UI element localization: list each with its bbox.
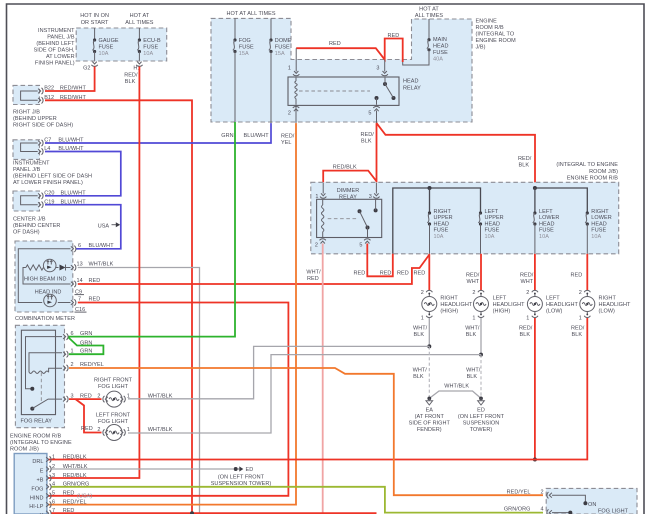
svg-text:HIGH BEAM IND: HIGH BEAM IND [24, 277, 67, 283]
svg-text:RIGHT: RIGHT [591, 209, 609, 215]
svg-text:RED: RED [354, 270, 366, 276]
svg-text:(ON LEFT FRONT: (ON LEFT FRONT [458, 414, 505, 420]
svg-text:ON: ON [588, 502, 596, 508]
right J/B connector B12 [42, 97, 44, 103]
wire RED/YEL head relay pin 2 down to HI-LP row [295, 105, 297, 123]
dimmer relay box [317, 199, 382, 237]
head relay pin 2 [293, 106, 299, 108]
svg-text:GRN: GRN [80, 349, 92, 355]
wire RED: main head fuse to head relay pins 1 and 3 [296, 39, 403, 63]
svg-text:(INTEGRAL TO ENGINE: (INTEGRAL TO ENGINE [556, 162, 618, 168]
svg-text:6: 6 [52, 499, 55, 505]
dimmer relay pin 1 [320, 197, 326, 199]
resistor (high beam ind) [26, 265, 44, 270]
wire RED pin7 to DRL module HIND row [48, 303, 288, 496]
svg-text:FOG RELAY: FOG RELAY [21, 419, 53, 425]
dimmer relay pin 2 [320, 239, 326, 241]
svg-text:CENTER J/B: CENTER J/B [13, 217, 46, 223]
svg-text:RED/YEL: RED/YEL [63, 499, 87, 505]
svg-text:(BEHIND LEFT: (BEHIND LEFT [36, 41, 75, 47]
dimmer relay switch [358, 209, 362, 213]
ground ED (left front suspension tower) [479, 397, 483, 401]
wire RED dimmer pin 5 loop up to high fuse bus [367, 244, 393, 277]
wire RED row 7 to head relay pin 5 column [52, 512, 377, 514]
svg-text:ENGINE: ENGINE [476, 19, 498, 25]
combination meter pin 13 [74, 264, 76, 270]
dimmer relay coil [322, 200, 324, 238]
svg-text:ALL TIMES: ALL TIMES [125, 20, 154, 26]
fog relay switch [30, 407, 34, 411]
svg-text:ROOM J/B): ROOM J/B) [10, 447, 39, 453]
svg-text:FUSE: FUSE [433, 50, 448, 56]
svg-text:HI-LP: HI-LP [29, 504, 44, 510]
svg-text:WHT/: WHT/ [466, 368, 481, 374]
svg-text:OR START: OR START [81, 20, 109, 26]
svg-text:2: 2 [472, 290, 475, 296]
head relay pin 3 [382, 74, 388, 76]
svg-text:RED/: RED/ [124, 73, 138, 79]
instrument panel J/B dashed box (C7/L4) [13, 140, 40, 160]
fog relay pin6-pin1 link GRN [69, 338, 104, 355]
head relay pin 5 [373, 106, 379, 108]
wire RED/BLK right low return to DRL row [48, 318, 587, 460]
svg-text:3: 3 [52, 473, 55, 479]
head relay box [288, 77, 399, 105]
combination meter pin 14 [74, 281, 76, 287]
svg-text:2: 2 [315, 243, 318, 249]
svg-text:(BEHIND CENTER: (BEHIND CENTER [13, 223, 60, 229]
svg-text:HEADLIGHT: HEADLIGHT [546, 302, 579, 308]
svg-text:UPPER: UPPER [485, 215, 504, 221]
fuse MAIN HEAD 40A [428, 19, 430, 40]
svg-text:MAIN: MAIN [433, 37, 447, 43]
svg-text:RED: RED [63, 491, 75, 497]
svg-text:(HIGH): (HIGH) [493, 309, 511, 315]
svg-text:PANEL J/B: PANEL J/B [13, 167, 41, 173]
svg-text:BLK: BLK [519, 163, 530, 169]
svg-text:RED/: RED/ [281, 133, 295, 139]
wire RED/BLK head relay pin 5 branches [376, 111, 378, 124]
junction B12 wire to row 7 [190, 511, 194, 514]
svg-text:10A: 10A [99, 51, 109, 57]
svg-text:1: 1 [579, 316, 582, 322]
svg-text:(INTEGRAL TO: (INTEGRAL TO [476, 32, 515, 38]
svg-text:UPPER: UPPER [434, 215, 453, 221]
svg-text:LEFT: LEFT [493, 296, 507, 302]
junction: right upper fuse tap [428, 186, 432, 190]
right J/B dashed box [13, 85, 40, 104]
right J/B connector B22 [42, 88, 44, 94]
svg-text:HEADLIGHT: HEADLIGHT [440, 302, 473, 308]
fog relay internal: pin6 to contact [26, 337, 63, 389]
svg-text:HEAD: HEAD [434, 221, 449, 227]
svg-text:BLK: BLK [572, 332, 583, 338]
svg-text:RED: RED [397, 270, 409, 276]
bulb LEFT HEADLIGHT (HIGH) [480, 254, 482, 290]
DRL module connector box [14, 454, 47, 514]
svg-text:2: 2 [421, 290, 424, 296]
svg-text:SUSPENSION: SUSPENSION [463, 421, 500, 427]
svg-text:ENGINE ROOM: ENGINE ROOM [476, 38, 517, 44]
svg-text:YEL: YEL [281, 140, 292, 146]
connector C7 [42, 140, 44, 146]
fog relay pin 3 [67, 396, 69, 402]
fog relay pin 2 [67, 365, 69, 371]
svg-text:HEADLIGHT: HEADLIGHT [599, 302, 632, 308]
svg-text:DRL: DRL [32, 459, 43, 465]
svg-text:RED/: RED/ [518, 156, 532, 162]
svg-text:RIGHT FRONT: RIGHT FRONT [94, 378, 133, 384]
svg-text:(ON LEFT FRONT: (ON LEFT FRONT [218, 475, 265, 481]
engine room R/B fog relay dashed enclosure [15, 325, 64, 427]
svg-text:1: 1 [127, 427, 130, 433]
svg-text:3: 3 [376, 65, 379, 71]
svg-text:INSTRUMENT: INSTRUMENT [38, 28, 75, 34]
svg-text:ENGINE ROOM R/B: ENGINE ROOM R/B [567, 176, 618, 182]
indicator lamp HEAD IND [44, 294, 57, 307]
svg-text:2: 2 [579, 290, 582, 296]
svg-text:ROOM R/B: ROOM R/B [476, 25, 504, 31]
svg-text:LEFT: LEFT [546, 296, 560, 302]
svg-text:FINISH PANEL): FINISH PANEL) [35, 60, 75, 66]
svg-text:WHT/BLK: WHT/BLK [444, 384, 469, 390]
svg-text:2: 2 [288, 111, 291, 117]
svg-text:WHT: WHT [467, 279, 480, 285]
head relay switch contacts [383, 82, 387, 86]
svg-text:HOT AT ALL TIMES: HOT AT ALL TIMES [226, 11, 275, 17]
instrument panel J/B (fuse box, top left) dashed enclosure [76, 28, 167, 61]
svg-text:FUSE: FUSE [99, 45, 114, 51]
fuse ECU-B 10A [138, 28, 140, 40]
wire GRN fog fuse to fog relay pin 6 [69, 122, 236, 337]
svg-text:FOG: FOG [31, 486, 43, 492]
svg-text:FOG LIGHT: FOG LIGHT [598, 509, 629, 514]
svg-text:RED: RED [81, 426, 93, 432]
wire RED/WHT B22 to gauge fuse G2 [45, 67, 95, 92]
connector C20 [42, 193, 44, 199]
dimmer relay pin 5 [364, 239, 370, 241]
fog relay pin 1 [67, 351, 69, 357]
svg-text:BLU/WHT: BLU/WHT [89, 243, 115, 249]
combination meter pin 6 [74, 246, 76, 252]
svg-text:RED: RED [307, 276, 319, 282]
indicator lamp HIGH BEAM IND [43, 259, 56, 272]
svg-text:1: 1 [421, 316, 424, 322]
fog relay box [21, 330, 55, 414]
bus: dimmer output to high beam fuses [393, 188, 481, 254]
svg-text:RED: RED [380, 270, 392, 276]
fuse GAUGE 10A [94, 28, 96, 40]
fuse LEFT LOWER HEAD 10A [533, 211, 536, 214]
svg-text:1: 1 [315, 194, 318, 200]
svg-text:HOT AT: HOT AT [419, 6, 439, 12]
fog switch pin 2 [547, 492, 549, 498]
wire WHT/BLK net to left fog light [128, 355, 481, 433]
svg-text:2: 2 [541, 490, 544, 496]
svg-text:BLK: BLK [466, 332, 477, 338]
svg-text:DOME: DOME [275, 38, 292, 44]
svg-text:2: 2 [97, 427, 100, 433]
svg-text:ENGINE ROOM R/B: ENGINE ROOM R/B [10, 434, 61, 440]
svg-text:RIGHT J/B: RIGHT J/B [13, 110, 40, 116]
svg-text:(USA): (USA) [77, 494, 92, 500]
dashed WHT/BLK to ground EA [428, 346, 430, 396]
svg-text:(AT FRONT: (AT FRONT [415, 414, 445, 420]
svg-text:(BEHIND UPPER: (BEHIND UPPER [13, 116, 57, 122]
svg-text:INSTRUMENT: INSTRUMENT [13, 161, 50, 167]
svg-text:WHT/BLK: WHT/BLK [148, 394, 173, 400]
bulb RIGHT HEADLIGHT (LOW) [586, 254, 588, 290]
svg-text:(HIGH): (HIGH) [440, 309, 458, 315]
svg-text:FENDER): FENDER) [417, 427, 442, 433]
svg-text:E: E [40, 469, 44, 475]
dimmer relay armature dashed link [328, 218, 357, 220]
svg-text:5: 5 [368, 111, 371, 117]
svg-text:1: 1 [52, 454, 55, 460]
svg-text:GRN/ORG: GRN/ORG [504, 506, 531, 512]
svg-text:RIGHT SIDE OF DASH): RIGHT SIDE OF DASH) [13, 123, 73, 129]
fuse FOG 15A [234, 18, 236, 40]
svg-text:ED: ED [246, 467, 254, 473]
svg-text:1: 1 [71, 349, 74, 355]
svg-text:PANEL J/B: PANEL J/B [47, 34, 75, 40]
svg-text:COMBINATION METER: COMBINATION METER [15, 316, 75, 322]
svg-text:6: 6 [78, 243, 81, 249]
bulb LEFT HEADLIGHT (LOW) [534, 254, 536, 290]
diode (high beam ind) [60, 265, 66, 271]
svg-text:1: 1 [127, 394, 130, 400]
connector H1 [136, 65, 142, 67]
svg-text:HEAD: HEAD [403, 79, 418, 85]
svg-text:BLK: BLK [467, 374, 478, 380]
junction: left lower fuse tap [533, 186, 537, 190]
svg-text:2: 2 [97, 394, 100, 400]
svg-text:FUSE: FUSE [143, 45, 158, 51]
svg-text:ED: ED [477, 408, 485, 414]
svg-text:(LOW): (LOW) [546, 309, 563, 315]
dashed WHT/BLK to ground ED [480, 355, 482, 397]
svg-text:HEAD: HEAD [485, 221, 500, 227]
svg-text:5: 5 [359, 243, 362, 249]
svg-text:10A: 10A [434, 234, 444, 240]
svg-text:LEFT: LEFT [539, 209, 553, 215]
svg-text:RED/: RED/ [520, 273, 534, 279]
svg-text:RED/: RED/ [466, 273, 480, 279]
svg-text:6: 6 [71, 331, 74, 337]
junction left high ground [479, 353, 483, 357]
svg-text:ECU-B: ECU-B [143, 38, 161, 44]
head relay coil [295, 81, 297, 99]
svg-text:FUSE: FUSE [485, 228, 500, 234]
wire BLU/WHT C7 to dome fuse [45, 123, 271, 143]
svg-text:DIMMER: DIMMER [337, 188, 360, 194]
svg-text:1: 1 [526, 316, 529, 322]
svg-text:WHT/: WHT/ [306, 270, 321, 276]
fog switch internal: pin2 to ON contact [552, 495, 585, 502]
wire WHT/BLK net to right fog light [128, 346, 429, 398]
svg-text:RED/: RED/ [361, 132, 375, 138]
svg-text:HIND: HIND [30, 495, 44, 501]
wire BLU/WHT L4 to C20 [45, 152, 121, 196]
svg-text:15A: 15A [275, 51, 285, 57]
junction right high ground [427, 344, 431, 348]
svg-text:TOWER): TOWER) [470, 427, 493, 433]
svg-text:HEADLIGHT: HEADLIGHT [493, 302, 526, 308]
svg-text:GRN: GRN [221, 133, 233, 139]
svg-text:BLK: BLK [125, 79, 136, 85]
svg-text:RED/BLK: RED/BLK [333, 165, 357, 171]
fuse DOME 15A [270, 18, 272, 40]
svg-text:13: 13 [77, 262, 83, 268]
svg-text:LEFT FRONT: LEFT FRONT [96, 413, 131, 419]
engine room R/B (lower) dashed enclosure [311, 182, 619, 254]
svg-text:10A: 10A [143, 51, 153, 57]
wire RED/YEL fog relay pin2 to fog light switch [69, 368, 543, 495]
svg-text:G2: G2 [83, 65, 90, 71]
combination meter pin 7 [74, 299, 76, 305]
combination meter dashed box [15, 241, 73, 312]
combination meter internal wiring [18, 249, 70, 303]
svg-text:HEAD: HEAD [591, 221, 606, 227]
svg-text:WHT/BLK: WHT/BLK [89, 262, 114, 268]
wire WHT/BLK pin13 down page [78, 268, 200, 514]
svg-text:BLK: BLK [413, 374, 424, 380]
svg-text:40A: 40A [433, 57, 443, 63]
fuse RIGHT LOWER HEAD 10A [586, 211, 589, 214]
svg-text:+B: +B [37, 478, 44, 484]
svg-text:WHT/: WHT/ [465, 326, 480, 332]
svg-text:RED: RED [571, 273, 583, 279]
svg-text:FUSE: FUSE [275, 45, 290, 51]
center J/B dashed box (C20/C19) [13, 191, 40, 211]
svg-text:BLU/WHT: BLU/WHT [244, 133, 270, 139]
svg-text:4: 4 [541, 506, 544, 512]
svg-text:WHT: WHT [521, 279, 534, 285]
svg-text:RED/: RED/ [571, 326, 585, 332]
svg-text:2: 2 [526, 290, 529, 296]
svg-text:RED/YEL: RED/YEL [507, 490, 531, 496]
svg-text:OF DASH): OF DASH) [13, 230, 40, 236]
head relay pin 1 [293, 74, 299, 76]
fog relay coil [29, 353, 62, 372]
svg-text:LOWER: LOWER [539, 215, 559, 221]
fog switch internal: pin4 contact [552, 512, 569, 514]
connector C19 [42, 202, 44, 208]
svg-text:WHT/BLK: WHT/BLK [148, 427, 173, 433]
svg-text:ALL TIMES: ALL TIMES [415, 13, 444, 19]
svg-text:5: 5 [52, 491, 55, 497]
svg-text:(LOW): (LOW) [599, 309, 616, 315]
svg-text:10A: 10A [591, 234, 601, 240]
svg-text:RED/: RED/ [519, 326, 533, 332]
fog relay armature dashed link [40, 373, 42, 402]
fuse RIGHT UPPER HEAD 10A [428, 211, 431, 214]
fog light switch dashed box [546, 488, 637, 514]
fog relay pin 6 [67, 333, 69, 339]
svg-text:15A: 15A [239, 51, 249, 57]
svg-text:FUSE: FUSE [591, 228, 606, 234]
svg-text:BLK: BLK [361, 139, 372, 145]
junction DRL row left low [533, 458, 537, 462]
svg-text:HOT AT: HOT AT [130, 13, 150, 19]
svg-text:AT LOWER: AT LOWER [46, 54, 75, 60]
svg-text:ROOM J/B): ROOM J/B) [589, 169, 618, 175]
svg-text:RIGHT: RIGHT [434, 209, 452, 215]
svg-text:J/B): J/B) [476, 45, 486, 51]
svg-text:USA: USA [98, 223, 110, 229]
connector G2 [91, 65, 97, 67]
svg-text:LOWER: LOWER [591, 215, 611, 221]
svg-text:WHT/: WHT/ [413, 368, 428, 374]
svg-text:HEAD IND: HEAD IND [35, 289, 62, 295]
wire WHT/BLK right high return to junction [428, 318, 430, 346]
wire GRN/ORG FOG row to fog light switch [52, 487, 544, 513]
wire WHT/BLK E row to ground ED [52, 468, 234, 470]
wire RED/WHT B12 down page [45, 100, 192, 513]
svg-text:FUSE: FUSE [539, 228, 554, 234]
svg-text:HOT IN ON: HOT IN ON [80, 13, 109, 19]
svg-text:(BEHIND LEFT SIDE OF DASH: (BEHIND LEFT SIDE OF DASH [13, 174, 92, 180]
svg-text:FUSE: FUSE [239, 45, 254, 51]
svg-text:10A: 10A [539, 234, 549, 240]
svg-text:1: 1 [472, 316, 475, 322]
svg-text:10A: 10A [485, 234, 495, 240]
svg-text:RELAY: RELAY [403, 86, 421, 92]
wire RED H1 (RED/BLK) down to +B row [48, 67, 139, 479]
wire BLU/WHT C19 to combination meter pin 6 [45, 205, 121, 249]
svg-text:SIDE OF DASH,: SIDE OF DASH, [34, 47, 75, 53]
wire RED/BLK left low return to DRL row [534, 318, 536, 460]
svg-text:EA: EA [426, 408, 434, 414]
svg-text:(INTEGRAL TO ENGINE: (INTEGRAL TO ENGINE [10, 440, 72, 446]
svg-text:RIGHT: RIGHT [440, 296, 458, 302]
connector L4 [42, 148, 44, 154]
svg-text:3: 3 [369, 194, 372, 200]
svg-text:LEFT: LEFT [485, 209, 499, 215]
fog switch pin 4 [547, 509, 549, 514]
wire RED fog relay pin3 to right fog light [69, 398, 102, 400]
bus: head relay output to low beam fuses [535, 188, 587, 213]
svg-text:BLK: BLK [520, 332, 531, 338]
svg-text:RELAY: RELAY [339, 195, 357, 201]
engine room R/B (top) dashed enclosure with fill [211, 18, 472, 122]
head relay armature dashed link [299, 90, 370, 92]
svg-text:SIDE OF RIGHT: SIDE OF RIGHT [409, 421, 451, 427]
svg-text:HEAD: HEAD [539, 221, 554, 227]
svg-text:GAUGE: GAUGE [99, 38, 119, 44]
dimmer relay pin 3 [373, 197, 379, 199]
svg-text:RED: RED [329, 41, 341, 47]
svg-text:HEAD: HEAD [433, 44, 448, 50]
svg-text:RIGHT: RIGHT [599, 296, 617, 302]
svg-text:BLK: BLK [414, 332, 425, 338]
bulb RIGHT HEADLIGHT (HIGH) [428, 254, 430, 290]
svg-text:GRN: GRN [80, 331, 92, 337]
svg-text:WHT/: WHT/ [413, 326, 428, 332]
svg-text:1: 1 [288, 65, 291, 71]
fuse LEFT UPPER HEAD 10A [479, 211, 482, 214]
svg-text:FUSE: FUSE [434, 228, 449, 234]
svg-text:FOG: FOG [239, 38, 251, 44]
wire RED pin14 to right upper head fuse output [78, 255, 430, 284]
wire WHT/BLK left high return to junction [480, 318, 482, 355]
wire WHT/RED dimmer pin 2 down page [322, 244, 324, 514]
wire WHT/BLK bridge between EA and ED [429, 391, 481, 398]
svg-text:GRN: GRN [80, 341, 92, 347]
svg-text:RED: RED [388, 33, 400, 39]
svg-text:RED/BLK: RED/BLK [63, 454, 87, 460]
wire RED branch to left fog light [76, 399, 102, 432]
